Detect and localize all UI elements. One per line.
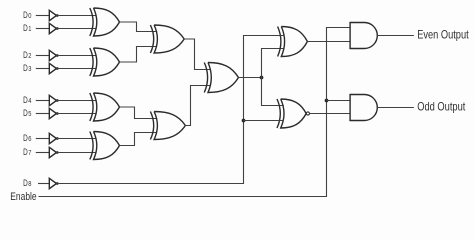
svg-text:4: 4	[28, 98, 31, 105]
wire D0 label stub	[36, 15, 50, 17]
svg-text:1: 1	[28, 26, 31, 33]
wire U3 out	[120, 107, 158, 119]
svg-text:0: 0	[28, 13, 31, 20]
wire D4 to XOR	[57, 100, 97, 102]
svg-text:Odd Output: Odd Output	[417, 100, 466, 114]
wire U8 out to U10	[307, 41, 350, 43]
wire D1 label stub	[36, 28, 50, 30]
buffer D8	[49, 178, 58, 188]
buffer D2	[49, 50, 58, 60]
wire U7 out to node A	[239, 77, 262, 79]
wire D5 to XOR	[57, 113, 97, 115]
wire D3 to XOR	[57, 68, 97, 70]
svg-text:D: D	[23, 133, 28, 144]
buffer D7	[49, 147, 58, 157]
svg-text:8: 8	[28, 181, 31, 188]
wire U5 out	[184, 39, 211, 70]
wire D6 label stub	[36, 138, 50, 140]
svg-text:Enable: Enable	[10, 191, 36, 203]
svg-text:D: D	[23, 23, 28, 34]
XNOR gate U9 (odd stage)	[277, 99, 310, 128]
XOR gate U8 (even stage)	[278, 27, 308, 57]
wire D2 label stub	[36, 55, 50, 57]
wire D8 label stub	[38, 183, 49, 185]
wire D4 label stub	[36, 100, 50, 102]
node A junction	[260, 76, 264, 80]
XOR gate U5 (level 2 top)	[150, 25, 184, 53]
buffer D1	[49, 23, 58, 33]
wire D2 to XOR	[57, 55, 97, 57]
wire D6 to XOR	[57, 138, 97, 140]
XOR gate U6 (level 2 bottom)	[150, 112, 185, 140]
svg-text:3: 3	[28, 66, 31, 73]
wire D5 label stub	[36, 113, 50, 115]
svg-text:D: D	[23, 10, 28, 21]
wire D0 to XOR	[57, 15, 97, 17]
node C junction on Enable riser	[325, 99, 329, 103]
wire U6 out	[185, 86, 211, 126]
svg-text:7: 7	[28, 150, 31, 157]
wire Even Output	[377, 35, 414, 37]
XOR gate U7 (level 3)	[204, 63, 238, 93]
svg-text:6: 6	[28, 136, 31, 143]
XOR gate U3 (D4 xor D5)	[90, 93, 120, 121]
AND gate U10 (even output)	[350, 23, 377, 49]
buffer D6	[49, 133, 58, 143]
wire D1 to XOR	[57, 28, 97, 30]
svg-text:5: 5	[28, 111, 31, 118]
wire node A down to U9 input	[262, 78, 284, 106]
svg-text:D: D	[23, 108, 28, 119]
wire U4 out	[120, 133, 158, 146]
buffer D5	[49, 108, 58, 118]
svg-text:Even Output: Even Output	[417, 28, 469, 42]
svg-text:D: D	[23, 50, 28, 61]
svg-text:D: D	[23, 95, 28, 106]
wire D7 label stub	[36, 152, 50, 154]
wire node B to U9 input	[244, 120, 284, 122]
buffer D0	[49, 10, 58, 20]
wire node A up to U8 input	[262, 49, 285, 78]
wire node C to U11 input	[327, 100, 351, 102]
wire D3 label stub	[36, 68, 50, 70]
svg-text:D: D	[23, 63, 28, 74]
XOR gate U2 (D2 xor D3)	[90, 48, 120, 76]
buffer D4	[49, 95, 58, 105]
wire Enable run	[39, 28, 351, 197]
wire U9 out to U11	[310, 113, 351, 115]
buffer D3	[49, 63, 58, 73]
svg-text:2: 2	[28, 53, 31, 60]
svg-text:D: D	[23, 178, 28, 189]
svg-text:D: D	[23, 147, 28, 158]
wire U2 out	[120, 47, 158, 63]
wire Odd Output	[377, 107, 414, 109]
AND gate U11 (odd output)	[350, 95, 377, 121]
wire U1 out	[120, 22, 158, 32]
wire D7 to XOR	[57, 152, 97, 154]
XOR gate U4 (D6 xor D7)	[90, 132, 120, 160]
XOR gate U1 (D0 xor D1)	[90, 8, 120, 36]
node B junction on D8 riser	[242, 119, 246, 123]
wire D8 run	[57, 36, 285, 184]
